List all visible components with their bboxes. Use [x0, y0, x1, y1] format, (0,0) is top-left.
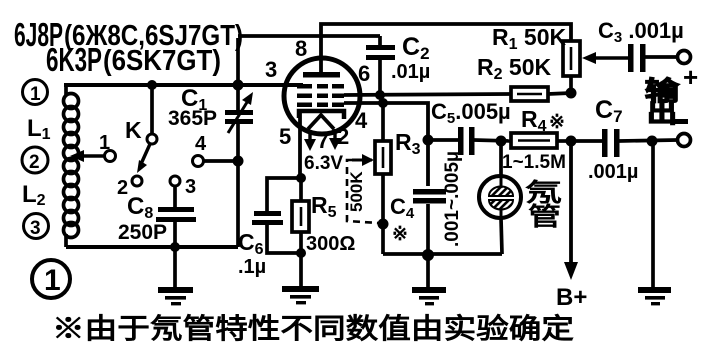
inductor L1/L2 coil — [64, 85, 79, 247]
tube V1 envelope — [284, 58, 360, 134]
svg-text:365P: 365P — [168, 107, 217, 130]
ground at output — [638, 141, 671, 305]
R3 value 500K (dashed wiper box) — [347, 154, 378, 223]
note mark for R3 — [392, 224, 408, 245]
svg-text:500K: 500K — [347, 171, 366, 212]
R1 wiper arrow — [582, 52, 629, 64]
pin 7 label — [317, 128, 329, 153]
svg-text:300Ω: 300Ω — [306, 233, 355, 255]
ground under R5 — [282, 253, 319, 304]
pin 3 label — [265, 57, 277, 82]
wire: plate (pin6) to R2 — [344, 90, 511, 100]
output terminal - — [672, 119, 688, 124]
resistor R5 — [292, 178, 355, 258]
svg-text:(6SK7GT): (6SK7GT) — [103, 45, 221, 77]
svg-text:1: 1 — [30, 84, 41, 105]
capacitor C5 — [428, 99, 511, 155]
svg-text:2: 2 — [337, 124, 349, 149]
svg-text:C5.005µ: C5.005µ — [431, 99, 511, 127]
resistor R3 — [375, 103, 421, 254]
svg-text:.001µ: .001µ — [588, 161, 638, 183]
terminal mark 1 (circled) — [23, 80, 48, 106]
output terminal + — [678, 51, 699, 93]
ground under C8 — [158, 247, 193, 305]
svg-text:.001~.005µ: .001~.005µ — [442, 151, 463, 247]
wire: screen (pin4) to C5/C4 — [344, 98, 434, 186]
junction C8/ground — [170, 242, 180, 252]
svg-text:※由于氖管特性不同数值由实验确定: ※由于氖管特性不同数值由实验确定 — [52, 312, 574, 344]
pin 2 label — [337, 124, 349, 149]
capacitor C6 — [238, 178, 301, 278]
wire: bottom middle — [383, 252, 502, 256]
svg-text:6: 6 — [358, 61, 370, 86]
svg-text:.01µ: .01µ — [391, 61, 430, 83]
switch contact 3 — [170, 176, 196, 208]
heater pin 7 arrow — [304, 130, 316, 151]
output label 输出 — [645, 76, 680, 128]
svg-text:3: 3 — [265, 57, 277, 82]
terminal mark 3 (circled) — [24, 214, 49, 240]
svg-text:C3 .001µ: C3 .001µ — [598, 18, 684, 46]
pin 8 label — [295, 36, 307, 61]
pin 4 label — [355, 108, 368, 133]
tube plate — [303, 72, 340, 78]
capacitor C4 — [390, 151, 463, 255]
svg-text:250P: 250P — [118, 221, 167, 244]
label L2 — [22, 181, 46, 209]
tube type label 6J8P — [14, 16, 243, 53]
switch K — [125, 80, 157, 173]
svg-text:3: 3 — [30, 218, 41, 239]
heater voltage label 6.3V — [304, 153, 343, 174]
svg-text:8: 8 — [295, 36, 307, 61]
tube cathode — [299, 111, 344, 119]
tube type label 6K3P — [46, 41, 221, 78]
tube heater filament — [308, 115, 334, 129]
variable capacitor C1 — [168, 38, 253, 247]
wire: top cap to R1 — [321, 24, 571, 77]
svg-text:B+: B+ — [556, 284, 587, 311]
svg-text:管: 管 — [528, 202, 561, 231]
tube grid dashes — [297, 84, 344, 107]
capacitor C8 — [118, 193, 196, 247]
wire: tank top horizontal — [64, 83, 303, 87]
figure number circled 1 — [32, 260, 70, 298]
svg-text:※: ※ — [549, 112, 565, 133]
switch contact 2 — [117, 176, 142, 199]
svg-text:6.3V: 6.3V — [304, 153, 343, 174]
svg-text:1: 1 — [99, 132, 110, 154]
heater pin 2 arrow — [329, 129, 341, 150]
wire: bottom left horizontal — [66, 245, 238, 249]
svg-text:2: 2 — [29, 152, 40, 173]
svg-text:R1 50K: R1 50K — [492, 24, 567, 53]
wire: grid link (C1 top to C2 top) — [238, 34, 380, 38]
footnote — [52, 312, 574, 344]
B+ supply line — [556, 141, 587, 311]
resistor R2 — [477, 54, 577, 101]
wire: pin5/cathode down — [296, 113, 306, 183]
svg-text:5: 5 — [279, 124, 291, 149]
junction bottom wire — [422, 249, 434, 261]
label L1 — [27, 115, 51, 143]
svg-text:+: + — [683, 62, 698, 92]
capacitor C2 — [366, 33, 430, 95]
svg-text:1: 1 — [44, 264, 61, 297]
svg-text:※: ※ — [392, 224, 408, 245]
svg-text:R2 50K: R2 50K — [477, 54, 552, 83]
capacitor C3 — [598, 18, 684, 72]
svg-text:6K3P: 6K3P — [46, 41, 102, 78]
capacitor C7 — [566, 96, 691, 183]
neon tube — [479, 141, 521, 254]
resistor R4 — [496, 106, 572, 173]
svg-text:4: 4 — [355, 108, 368, 133]
antenna tap terminal 1 — [70, 132, 116, 162]
pin 6 label — [358, 61, 370, 86]
svg-text:7: 7 — [317, 128, 329, 153]
neon tube label 氖管 — [525, 179, 562, 231]
svg-text:1~1.5M: 1~1.5M — [502, 152, 566, 173]
grid contact 4 — [193, 133, 244, 167]
pin 5 label — [279, 124, 291, 149]
potentiometer R1 — [492, 24, 580, 93]
svg-text:.1µ: .1µ — [238, 256, 266, 278]
svg-text:4: 4 — [195, 133, 207, 155]
svg-text:K: K — [125, 117, 142, 143]
terminal mark 2 (circled) — [22, 147, 48, 173]
svg-text:3: 3 — [185, 176, 196, 198]
ground under C4 — [412, 255, 446, 305]
